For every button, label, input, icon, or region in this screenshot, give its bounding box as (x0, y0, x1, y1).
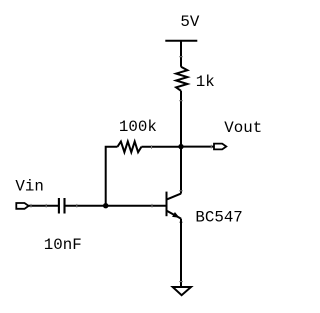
wire vcc to R1 (180, 41, 182, 67)
resistor R2 100k (118, 142, 142, 153)
pin-end tick R1 top (179, 56, 183, 58)
pin-end tick Vout (210, 145, 212, 149)
pin-end tick C1 left (45, 204, 47, 208)
wire emitter to ground (180, 219, 182, 287)
transistor Q1 base bar (166, 192, 168, 217)
junction node collector (178, 144, 183, 149)
wire R2 to collector node (142, 146, 182, 148)
wire C1 to base (66, 205, 166, 207)
wire Vin terminal to C1 (29, 205, 58, 207)
svg-text:1k: 1k (196, 73, 215, 91)
transistor Q1 emitter arrow (172, 212, 180, 218)
wire node to 100k corner (106, 147, 118, 206)
pin-end tick Q1 emitter (179, 221, 183, 223)
pin-end tick R2 right (151, 145, 153, 149)
pin-end tick Q1 base (151, 204, 153, 208)
resistor R1 1k (176, 67, 187, 91)
svg-text:10nF: 10nF (44, 236, 82, 254)
pin-end tick R1 bottom (179, 100, 183, 102)
svg-text:100k: 100k (119, 118, 157, 136)
pin-end tick C1 right (76, 204, 78, 208)
transistor Q1 emitter lead (167, 211, 182, 219)
vcc power rail symbol (165, 40, 197, 42)
transistor Q1 collector lead (167, 194, 182, 200)
svg-text:5V: 5V (180, 13, 199, 31)
capacitor C1 right plate (63, 198, 65, 214)
capacitor C1 left plate (58, 198, 60, 214)
wire R1 to collector node (180, 91, 182, 194)
pin-end tick gnd (179, 281, 183, 283)
output terminal Vout (214, 144, 226, 150)
svg-text:BC547: BC547 (195, 208, 242, 226)
ground symbol (173, 287, 191, 295)
input terminal Vin (16, 203, 28, 209)
junction node base (103, 203, 108, 208)
svg-text:Vout: Vout (224, 119, 262, 137)
pin-end tick Vin (30, 204, 32, 208)
pin-end tick Q1 collector (179, 190, 183, 192)
svg-text:Vin: Vin (15, 177, 43, 195)
wire collector node to Vout terminal (181, 146, 214, 148)
